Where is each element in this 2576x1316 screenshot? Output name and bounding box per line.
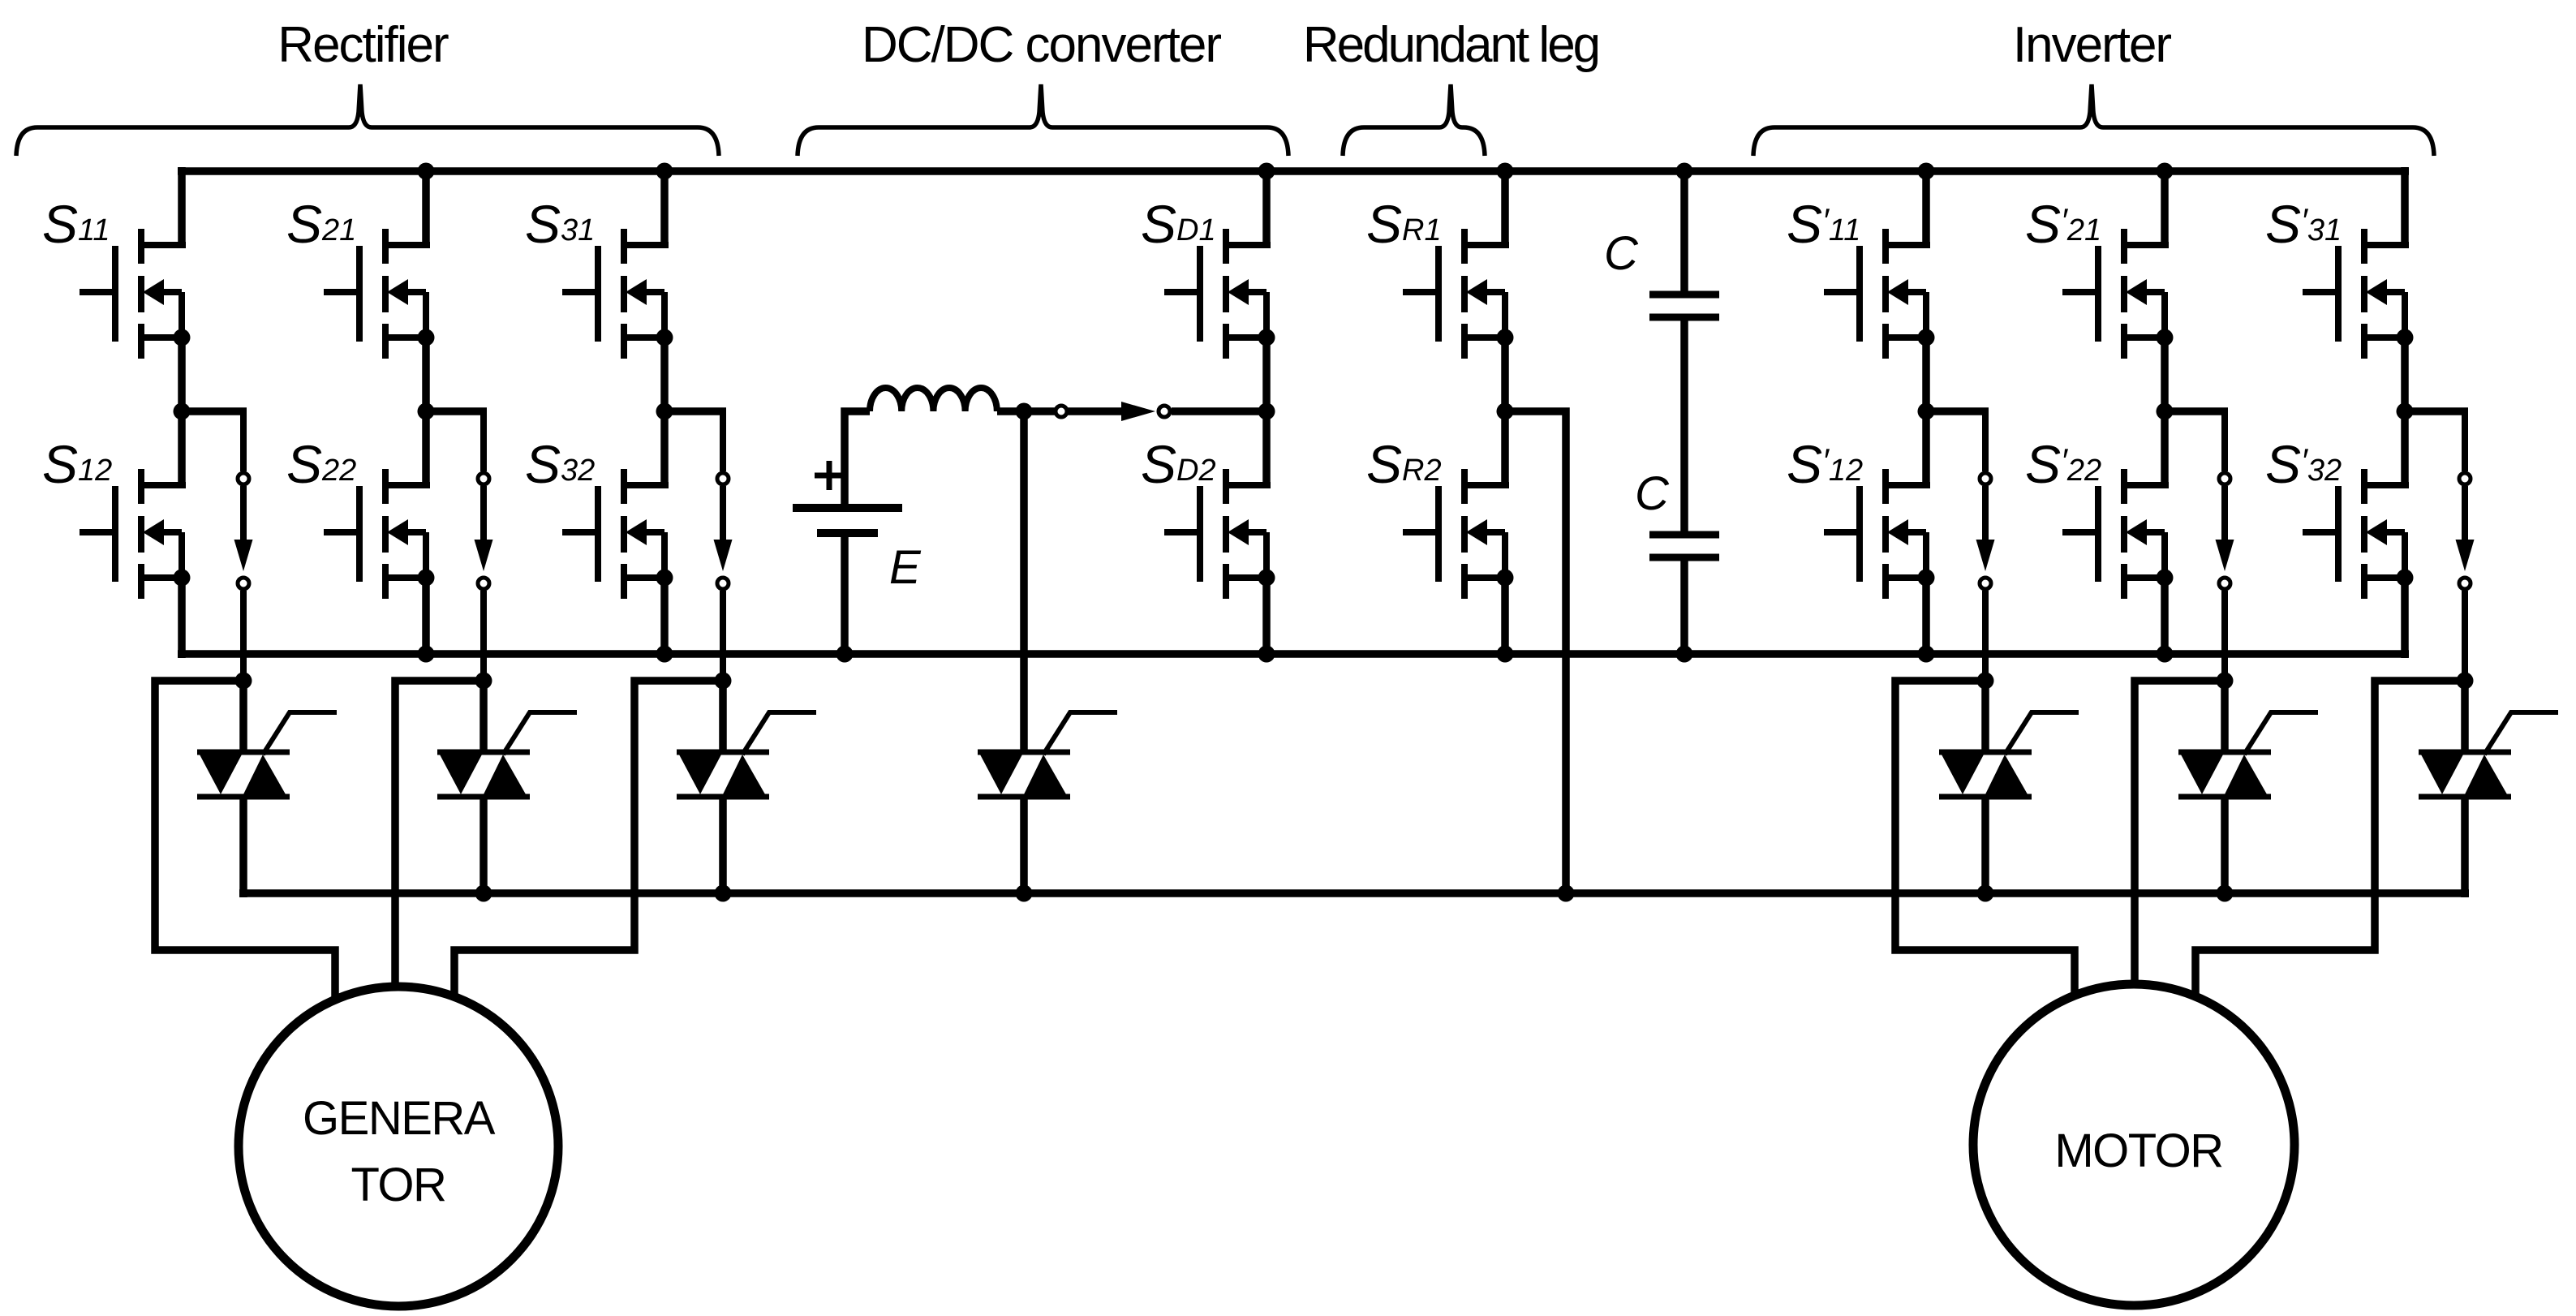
node: triac bottom on return wire bbox=[475, 885, 492, 902]
svg-text:Inverter: Inverter bbox=[2013, 17, 2172, 73]
transistor SD1 bbox=[1164, 229, 1275, 359]
transistor S'22 bbox=[2062, 469, 2174, 599]
wire: midpoint tap of leg S'11/S'12 bbox=[1926, 407, 1989, 415]
triac of phase 11 bbox=[1939, 712, 2079, 797]
node: triac bottom on return wire bbox=[2217, 885, 2234, 902]
wire: leg S31 source to midpoint bbox=[660, 338, 669, 411]
wire: triac top feed, phase 11 bbox=[239, 681, 247, 752]
wire: SR2 source riser bbox=[1501, 578, 1509, 654]
transistor S32 bbox=[562, 469, 673, 599]
wire: triac bottom, phase 31 bbox=[719, 797, 727, 893]
brace Inverter bbox=[1753, 84, 2434, 156]
transistor S'11 bbox=[1824, 229, 1935, 359]
transistor SR2 bbox=[1403, 469, 1514, 599]
node: triac bottom on return wire bbox=[715, 885, 732, 902]
node: leg S32 on bottom bus bbox=[656, 646, 673, 663]
wire: leg S12 drain riser bbox=[178, 411, 186, 485]
wire: motor phase C (with bypass box top) bbox=[2195, 681, 2465, 1014]
node: leg S22 on bottom bus bbox=[418, 646, 435, 663]
wire: leg S'21 drain riser bbox=[2161, 167, 2169, 245]
wire: DC/DC triac bottom bbox=[1020, 797, 1028, 893]
wire: leg S22 source riser bbox=[422, 578, 430, 658]
node: capacitor on top bus bbox=[1676, 163, 1693, 180]
node: capacitor on bottom bus bbox=[1676, 646, 1693, 663]
svg-text:MOTOR: MOTOR bbox=[2054, 1125, 2222, 1177]
transistor SD2 bbox=[1164, 469, 1275, 599]
svg-text:C: C bbox=[1635, 467, 1670, 520]
wire: triac bottom, phase 21 bbox=[2221, 797, 2229, 893]
wire: triac bottom, phase 21 bbox=[480, 797, 488, 893]
generator circle bbox=[239, 987, 558, 1306]
wire: SR midpoint tap to return wire bbox=[1505, 411, 1566, 893]
node: phase tap 21 bbox=[2217, 673, 2234, 690]
disconnect arrow of phase 1 (phase disconnect arrow) bbox=[1976, 411, 1995, 681]
wire: midpoint tap of leg S11/S12 bbox=[182, 407, 247, 415]
transistor SR1 bbox=[1403, 229, 1514, 359]
label + (battery polarity) bbox=[815, 461, 844, 490]
wire: leg S31 drain riser bbox=[660, 167, 669, 245]
transistor S21 bbox=[324, 229, 435, 359]
wire: capacitor leg bottom bbox=[1680, 557, 1688, 654]
wire: leg S11 source to midpoint bbox=[178, 338, 186, 411]
wire: inductor to switching node bbox=[997, 407, 1056, 415]
transistor S12 bbox=[80, 469, 191, 599]
wire: SR2 drain riser bbox=[1501, 411, 1509, 485]
battery E negative plate bbox=[817, 529, 878, 537]
wire: bottom DC bus bbox=[178, 650, 2409, 658]
wire: leg S'22 drain riser bbox=[2161, 411, 2169, 485]
node: leg S21 on top bus bbox=[418, 163, 435, 180]
triac of phase 21 bbox=[437, 712, 577, 797]
node: phase tap 11 bbox=[235, 673, 252, 690]
wire: DC/DC triac feed bbox=[1020, 411, 1028, 752]
wire: triac top feed, phase 11 bbox=[1981, 681, 1989, 752]
wire: leg S'21 source to midpoint bbox=[2161, 338, 2169, 411]
wire: motor phase B (with bypass box top) bbox=[2135, 681, 2225, 996]
wire: leg S22 drain riser bbox=[422, 411, 430, 485]
node: battery on bottom bus bbox=[836, 646, 854, 663]
capacitor C (lower) bbox=[1649, 535, 1719, 557]
wire: triac top feed, phase 31 bbox=[2461, 681, 2469, 752]
svg-text:TOR: TOR bbox=[351, 1159, 446, 1211]
node: phase tap 31 bbox=[2457, 673, 2474, 690]
wire: leg S32 source riser bbox=[660, 578, 669, 658]
triac of phase 21 bbox=[2178, 712, 2318, 797]
node: leg S31 on top bus bbox=[656, 163, 673, 180]
node: midpoint of leg S'21/S'22 bbox=[2157, 403, 2174, 420]
svg-text:Redundant leg: Redundant leg bbox=[1303, 17, 1598, 73]
svg-text:GENERA: GENERA bbox=[303, 1092, 496, 1145]
wire: generator phase B (with bypass box top) bbox=[395, 681, 484, 998]
transistor S11 bbox=[80, 229, 191, 359]
wire: midpoint tap of leg S21/S22 bbox=[426, 407, 487, 415]
disconnect arrow of phase 3 (phase disconnect arrow) bbox=[714, 411, 733, 681]
wire: leg S'11 drain riser bbox=[1922, 167, 1930, 245]
node: SR leg on top bus bbox=[1497, 163, 1514, 180]
node: leg S'11 on top bus bbox=[1918, 163, 1935, 180]
node: midpoint of leg S'11/S'12 bbox=[1918, 403, 1935, 420]
brace DC/DC converter bbox=[798, 84, 1288, 156]
transistor S31 bbox=[562, 229, 673, 359]
wire: leg S'22 source riser bbox=[2161, 578, 2169, 658]
transistor S'31 bbox=[2303, 229, 2414, 359]
wire: leg S21 drain riser bbox=[422, 167, 430, 245]
connector circle left bbox=[1056, 406, 1067, 417]
triac of phase 31 bbox=[2419, 712, 2558, 797]
wire: connector to SD midpoint bbox=[1172, 407, 1266, 415]
wire: motor phase A (with bypass box top) bbox=[1895, 681, 2075, 1014]
wire: leg S11 drain riser bbox=[178, 167, 186, 245]
node: SD leg on bottom bus bbox=[1258, 646, 1275, 663]
triac of DC/DC converter bbox=[978, 712, 1117, 797]
wire: SD2 source riser bbox=[1262, 578, 1271, 654]
wire: leg S'31 source to midpoint bbox=[2401, 338, 2409, 411]
wire: AC return wire bbox=[239, 889, 2469, 897]
node: SR leg on bottom bus bbox=[1497, 646, 1514, 663]
wire: leg S32 drain riser bbox=[660, 411, 669, 485]
node: leg S'12 on bottom bus bbox=[1918, 646, 1935, 663]
disconnect arrow of phase 1 (phase disconnect arrow) bbox=[234, 411, 253, 681]
wire: SD1 drain riser bbox=[1262, 171, 1271, 245]
wire: battery - to bottom bus bbox=[841, 533, 849, 654]
wire: generator phase A (with bypass box top) bbox=[155, 681, 335, 1010]
wire: triac top feed, phase 21 bbox=[480, 681, 488, 752]
wire: midpoint tap of leg S'21/S'22 bbox=[2165, 407, 2228, 415]
battery E positive plate bbox=[793, 504, 902, 512]
disconnect arrow of phase 2 (phase disconnect arrow) bbox=[2216, 411, 2234, 681]
wire: capacitor leg middle bbox=[1680, 317, 1688, 535]
wire: triac bottom, phase 11 bbox=[239, 797, 247, 897]
wire: top DC bus bbox=[178, 167, 2409, 175]
node: triac bottom on return wire bbox=[1977, 885, 1994, 902]
node: phase tap 11 bbox=[1977, 673, 1994, 690]
triac of phase 11 bbox=[197, 712, 337, 797]
wire: SR1 source to midpoint bbox=[1501, 338, 1509, 411]
node: SR tap on return wire bbox=[1558, 885, 1575, 902]
node: midpoint of leg S'31/S'32 bbox=[2397, 403, 2414, 420]
node: SR midpoint bbox=[1497, 403, 1514, 420]
wire: leg S'12 source riser bbox=[1922, 578, 1930, 658]
svg-text:C: C bbox=[1604, 227, 1639, 280]
disconnect arrow of phase 2 (phase disconnect arrow) bbox=[475, 411, 493, 681]
wire: midpoint tap of leg S'31/S'32 bbox=[2405, 407, 2468, 415]
wire: leg S'31 drain riser bbox=[2401, 167, 2409, 245]
node: inductor output bbox=[1016, 403, 1033, 420]
node: leg S'21 on top bus bbox=[2157, 163, 2174, 180]
node: midpoint of leg S21/S22 bbox=[418, 403, 435, 420]
connector arrow (right) bbox=[1121, 402, 1155, 421]
node: leg S'22 on bottom bus bbox=[2157, 646, 2174, 663]
wire: leg S'12 drain riser bbox=[1922, 411, 1930, 485]
wire: SD1 source to midpoint bbox=[1262, 338, 1271, 411]
transistor S'21 bbox=[2062, 229, 2174, 359]
wire: triac top feed, phase 21 bbox=[2221, 681, 2229, 752]
wire: leg S'32 drain riser bbox=[2401, 411, 2409, 485]
wire: midpoint tap of leg S31/S32 bbox=[664, 407, 726, 415]
wire: connector shaft bbox=[1068, 407, 1122, 415]
node: DC/DC triac on return wire bbox=[1016, 885, 1033, 902]
node: SD midpoint bbox=[1258, 403, 1275, 420]
wire: leg S'11 source to midpoint bbox=[1922, 338, 1930, 411]
motor circle bbox=[1973, 984, 2294, 1305]
triac of phase 31 bbox=[677, 712, 816, 797]
wire: battery + to inductor bbox=[845, 411, 870, 508]
wire: triac bottom, phase 11 bbox=[1981, 797, 1989, 893]
node: midpoint of leg S11/S12 bbox=[174, 403, 191, 420]
svg-text:DC/DC converter: DC/DC converter bbox=[862, 17, 1221, 73]
connector circle right bbox=[1159, 406, 1170, 417]
transistor S'32 bbox=[2303, 469, 2414, 599]
wire: SD2 drain riser bbox=[1262, 411, 1271, 485]
node: phase tap 31 bbox=[715, 673, 732, 690]
wire: triac bottom, phase 31 bbox=[2461, 797, 2469, 897]
wire: leg S12 source riser bbox=[178, 578, 186, 658]
svg-text:E: E bbox=[889, 541, 922, 594]
wire: SR1 drain riser bbox=[1501, 171, 1509, 245]
capacitor C (upper) bbox=[1649, 295, 1719, 317]
node: midpoint of leg S31/S32 bbox=[656, 403, 673, 420]
wire: generator phase C (with bypass box top) bbox=[454, 681, 723, 1010]
wire: triac top feed, phase 31 bbox=[719, 681, 727, 752]
inductor L bbox=[870, 388, 997, 411]
disconnect arrow of phase 3 (phase disconnect arrow) bbox=[2456, 411, 2475, 681]
transistor S'12 bbox=[1824, 469, 1935, 599]
brace Rectifier bbox=[16, 84, 719, 156]
brace Redundant leg bbox=[1343, 84, 1485, 156]
node: phase tap 21 bbox=[475, 673, 492, 690]
node: SD leg on top bus bbox=[1258, 163, 1275, 180]
wire: capacitor leg top bbox=[1680, 171, 1688, 295]
wire: leg S21 source to midpoint bbox=[422, 338, 430, 411]
wire: leg S'32 source riser bbox=[2401, 578, 2409, 658]
transistor S22 bbox=[324, 469, 435, 599]
svg-text:Rectifier: Rectifier bbox=[277, 17, 449, 73]
